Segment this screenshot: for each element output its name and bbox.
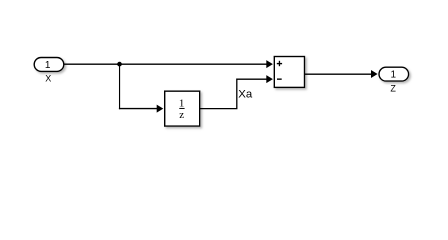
minus sign [277, 78, 282, 80]
wire: sum output to outport [305, 70, 378, 78]
svg-text:1: 1 [391, 69, 397, 80]
outport block Out1 "Z" (stadium with 1) [379, 67, 409, 81]
svg-text:1: 1 [45, 60, 51, 71]
plus sign [277, 61, 282, 66]
inport block In1 "X" (stadium with 1) [34, 58, 64, 72]
wire: junction down [119, 64, 121, 110]
value label 1/z [179, 97, 185, 120]
unit delay block U1 (1/z) [165, 91, 200, 126]
wire: unit delay output to sum - input [200, 75, 273, 108]
wire: inport to sum + input [64, 60, 273, 68]
svg-text:Xa: Xa [238, 88, 253, 100]
svg-text:Z: Z [390, 83, 396, 93]
svg-text:1: 1 [179, 97, 185, 109]
sum block (+ -) [274, 57, 304, 88]
svg-text:z: z [179, 109, 184, 121]
node junction dot [117, 62, 122, 67]
svg-text:X: X [45, 74, 51, 84]
wire: elbow to unit delay input [119, 105, 163, 113]
